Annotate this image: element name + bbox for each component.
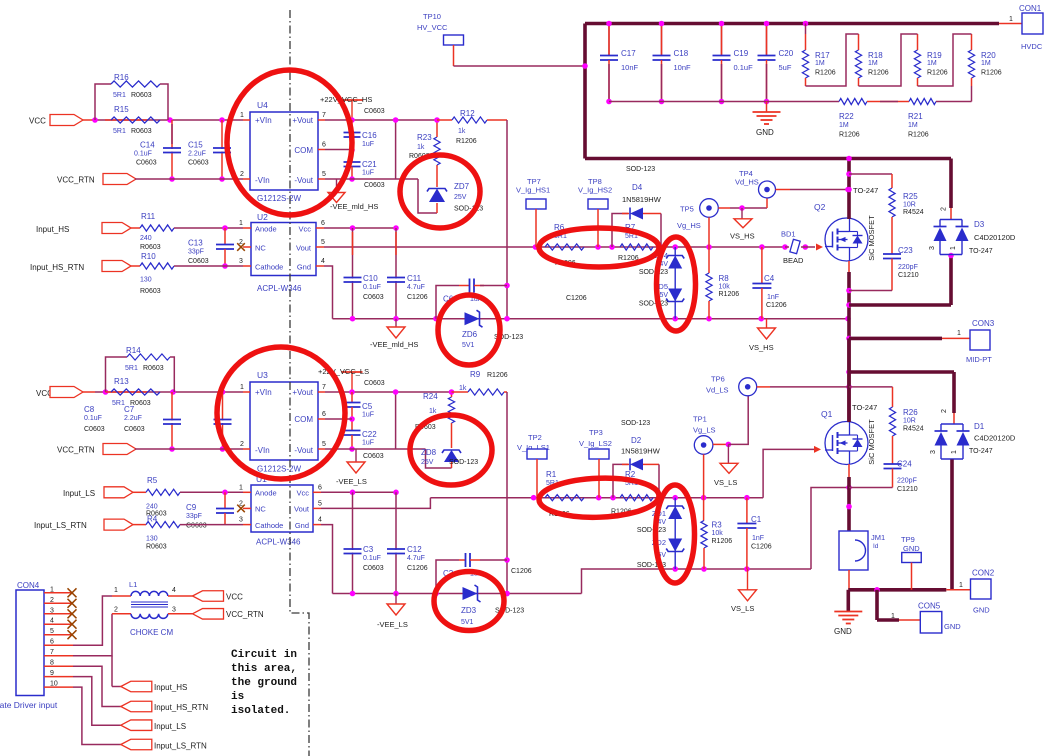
svg-text:TO-247: TO-247 xyxy=(969,448,993,455)
svg-text:D1: D1 xyxy=(974,422,985,431)
svg-text:R20: R20 xyxy=(981,51,996,60)
svg-text:R25: R25 xyxy=(903,192,918,201)
svg-text:33pF: 33pF xyxy=(188,249,204,256)
svg-text:Vg_LS: Vg_LS xyxy=(693,426,716,435)
svg-text:R1206: R1206 xyxy=(868,70,889,77)
svg-text:NC: NC xyxy=(255,505,266,514)
svg-text:9: 9 xyxy=(50,670,54,677)
svg-text:3: 3 xyxy=(929,246,936,250)
svg-text:R9: R9 xyxy=(470,370,481,379)
svg-text:-VEE_mld_HS: -VEE_mld_HS xyxy=(330,202,378,211)
svg-text:Anode: Anode xyxy=(255,225,277,234)
svg-text:5: 5 xyxy=(321,239,325,246)
svg-text:CON2: CON2 xyxy=(972,569,995,578)
svg-text:R1206: R1206 xyxy=(927,70,948,77)
svg-text:R1206: R1206 xyxy=(981,70,1002,77)
svg-text:C17: C17 xyxy=(621,49,636,58)
svg-text:C0603: C0603 xyxy=(84,426,105,433)
svg-text:C7: C7 xyxy=(124,405,135,414)
svg-text:Gate Driver input: Gate Driver input xyxy=(0,700,58,710)
svg-text:R26: R26 xyxy=(903,408,918,417)
svg-text:C0603: C0603 xyxy=(136,160,157,167)
svg-text:R1206: R1206 xyxy=(712,538,733,545)
svg-text:25V: 25V xyxy=(454,194,467,201)
svg-text:10k: 10k xyxy=(712,530,724,537)
svg-text:2: 2 xyxy=(114,607,118,614)
svg-text:0.1uF: 0.1uF xyxy=(134,151,152,158)
svg-text:R0603: R0603 xyxy=(131,128,152,135)
svg-text:C8: C8 xyxy=(84,405,95,414)
svg-text:10: 10 xyxy=(50,681,58,688)
svg-text:1uF: 1uF xyxy=(362,141,374,148)
svg-text:10nF: 10nF xyxy=(674,63,692,72)
svg-text:C23: C23 xyxy=(898,246,913,255)
svg-text:Q1: Q1 xyxy=(821,409,833,419)
svg-text:C15: C15 xyxy=(188,141,203,150)
svg-text:1M: 1M xyxy=(815,60,825,67)
svg-text:Anode: Anode xyxy=(255,489,277,498)
svg-text:MID-PT: MID-PT xyxy=(966,355,992,364)
svg-text:VCC: VCC xyxy=(226,593,243,602)
svg-text:0.1uF: 0.1uF xyxy=(734,63,754,72)
svg-text:3: 3 xyxy=(239,517,243,524)
svg-text:Input_HS_RTN: Input_HS_RTN xyxy=(30,263,84,272)
svg-text:6: 6 xyxy=(50,639,54,646)
svg-text:R13: R13 xyxy=(114,377,129,386)
svg-text:C1206: C1206 xyxy=(407,565,428,572)
svg-text:C5: C5 xyxy=(362,402,373,411)
svg-text:Vout: Vout xyxy=(296,244,312,253)
svg-text:Vout: Vout xyxy=(294,505,310,514)
svg-text:1M: 1M xyxy=(839,122,849,129)
svg-text:1nF: 1nF xyxy=(767,294,779,301)
svg-text:SiC MOSFET: SiC MOSFET xyxy=(867,419,876,465)
svg-text:R3: R3 xyxy=(712,521,723,530)
svg-text:C13: C13 xyxy=(188,239,203,248)
svg-text:C3: C3 xyxy=(363,545,374,554)
svg-text:VCC_RTN: VCC_RTN xyxy=(226,610,264,619)
svg-text:TP2: TP2 xyxy=(528,433,542,442)
svg-text:TP1: TP1 xyxy=(693,415,707,424)
svg-text:2: 2 xyxy=(240,171,244,178)
svg-text:7: 7 xyxy=(322,384,326,391)
svg-text:Cathode: Cathode xyxy=(255,263,283,272)
svg-text:+Vout: +Vout xyxy=(292,388,313,397)
svg-text:1: 1 xyxy=(240,384,244,391)
svg-text:4: 4 xyxy=(172,587,176,594)
svg-text:220pF: 220pF xyxy=(897,478,917,485)
svg-text:240: 240 xyxy=(146,504,158,511)
svg-text:VS_LS: VS_LS xyxy=(714,478,737,487)
svg-text:10nF: 10nF xyxy=(621,63,639,72)
svg-text:+VIn: +VIn xyxy=(255,116,272,125)
svg-text:R1: R1 xyxy=(546,470,557,479)
svg-text:-VEE_mld_HS: -VEE_mld_HS xyxy=(370,340,418,349)
svg-text:C14: C14 xyxy=(140,141,155,150)
svg-text:2: 2 xyxy=(50,597,54,604)
svg-text:R19: R19 xyxy=(927,51,942,60)
svg-text:1uF: 1uF xyxy=(362,170,374,177)
svg-text:Vcc: Vcc xyxy=(296,489,309,498)
svg-text:the ground: the ground xyxy=(231,677,297,689)
svg-text:C0603: C0603 xyxy=(124,426,145,433)
svg-text:TP9: TP9 xyxy=(901,535,915,544)
svg-text:5: 5 xyxy=(50,628,54,635)
svg-text:C1206: C1206 xyxy=(407,294,428,301)
svg-text:-Vout: -Vout xyxy=(294,176,313,185)
svg-text:+22V_VCC_HS: +22V_VCC_HS xyxy=(320,95,372,104)
svg-text:Vg_HS: Vg_HS xyxy=(677,221,701,230)
svg-text:CON1: CON1 xyxy=(1019,4,1042,13)
svg-text:SOD-123: SOD-123 xyxy=(626,166,655,173)
svg-text:C10: C10 xyxy=(363,274,378,283)
svg-text:5R1: 5R1 xyxy=(113,92,126,99)
svg-text:VCC_RTN: VCC_RTN xyxy=(57,176,95,185)
svg-text:SOD-123: SOD-123 xyxy=(639,301,668,308)
svg-text:5V: 5V xyxy=(659,292,668,299)
svg-text:1k: 1k xyxy=(459,385,467,392)
svg-text:1: 1 xyxy=(239,485,243,492)
svg-text:ACPL-W346: ACPL-W346 xyxy=(257,284,302,293)
svg-text:4: 4 xyxy=(50,618,54,625)
svg-text:C1206: C1206 xyxy=(566,295,587,302)
svg-text:3: 3 xyxy=(172,607,176,614)
svg-text:is: is xyxy=(231,691,244,703)
svg-text:G1212S-2W: G1212S-2W xyxy=(257,465,301,474)
svg-text:Input_HS: Input_HS xyxy=(154,683,187,692)
svg-text:+Vout: +Vout xyxy=(292,116,313,125)
svg-text:C0603: C0603 xyxy=(363,294,384,301)
svg-text:0.1uF: 0.1uF xyxy=(363,284,381,291)
svg-text:GND: GND xyxy=(903,544,920,553)
svg-text:Id: Id xyxy=(873,543,879,550)
svg-text:TP10: TP10 xyxy=(423,12,441,21)
svg-text:R4524: R4524 xyxy=(903,209,924,216)
svg-text:D2: D2 xyxy=(631,436,642,445)
svg-text:C20: C20 xyxy=(779,49,794,58)
svg-text:SOD-123: SOD-123 xyxy=(449,459,478,466)
svg-text:ZD7: ZD7 xyxy=(454,182,470,191)
svg-text:V_Ig_HS2: V_Ig_HS2 xyxy=(578,186,612,195)
svg-text:R21: R21 xyxy=(908,112,923,121)
svg-text:33pF: 33pF xyxy=(186,513,202,520)
svg-text:C0603: C0603 xyxy=(188,160,209,167)
svg-text:10R: 10R xyxy=(903,418,916,425)
svg-text:1uF: 1uF xyxy=(362,412,374,419)
svg-text:R1206: R1206 xyxy=(719,291,740,298)
svg-text:V_Ig_LS2: V_Ig_LS2 xyxy=(579,439,612,448)
svg-text:4.7uF: 4.7uF xyxy=(407,555,425,562)
svg-text:Vcc: Vcc xyxy=(298,225,311,234)
svg-text:U3: U3 xyxy=(257,370,268,380)
svg-text:R16: R16 xyxy=(114,73,129,82)
svg-text:1: 1 xyxy=(240,112,244,119)
svg-text:5R1: 5R1 xyxy=(112,400,125,407)
svg-text:C9: C9 xyxy=(186,503,197,512)
svg-text:C1206: C1206 xyxy=(751,544,772,551)
svg-text:6: 6 xyxy=(322,411,326,418)
svg-text:R0603: R0603 xyxy=(140,244,161,251)
svg-text:C11: C11 xyxy=(407,274,422,283)
svg-text:C0603: C0603 xyxy=(364,380,385,387)
svg-text:HV_VCC: HV_VCC xyxy=(417,23,448,32)
svg-text:C0603: C0603 xyxy=(363,565,384,572)
svg-text:-VIn: -VIn xyxy=(255,176,270,185)
svg-text:isolated.: isolated. xyxy=(231,705,290,717)
svg-text:COM: COM xyxy=(294,415,313,424)
svg-text:R14: R14 xyxy=(126,346,141,355)
svg-text:SOD-123: SOD-123 xyxy=(621,420,650,427)
svg-text:C16: C16 xyxy=(362,131,377,140)
svg-text:2: 2 xyxy=(941,207,948,211)
svg-text:R4524: R4524 xyxy=(903,426,924,433)
svg-text:1k: 1k xyxy=(417,144,425,151)
svg-text:R4: R4 xyxy=(147,515,158,524)
svg-text:GND: GND xyxy=(756,128,774,137)
svg-text:25V: 25V xyxy=(421,459,434,466)
svg-text:5R1: 5R1 xyxy=(113,128,126,135)
svg-text:6: 6 xyxy=(322,142,326,149)
svg-text:VCC_RTN: VCC_RTN xyxy=(57,446,95,455)
svg-text:3: 3 xyxy=(239,258,243,265)
svg-text:5V1: 5V1 xyxy=(461,619,474,626)
svg-text:1nF: 1nF xyxy=(752,535,764,542)
svg-text:C22: C22 xyxy=(362,430,377,439)
svg-text:Cathode: Cathode xyxy=(255,521,283,530)
svg-text:1: 1 xyxy=(950,246,957,250)
svg-text:C21: C21 xyxy=(362,160,377,169)
svg-text:ZD6: ZD6 xyxy=(462,330,478,339)
svg-text:6: 6 xyxy=(321,220,325,227)
svg-text:U4: U4 xyxy=(257,100,268,110)
svg-text:C1: C1 xyxy=(751,515,762,524)
svg-text:R15: R15 xyxy=(114,105,129,114)
svg-text:ACPL-W346: ACPL-W346 xyxy=(256,538,301,547)
svg-text:0.1uF: 0.1uF xyxy=(84,415,102,422)
svg-text:4: 4 xyxy=(318,517,322,524)
svg-text:SiC MOSFET: SiC MOSFET xyxy=(867,215,876,261)
svg-text:1: 1 xyxy=(114,587,118,594)
svg-text:Circuit in: Circuit in xyxy=(231,649,297,661)
svg-text:5: 5 xyxy=(322,441,326,448)
svg-text:C1210: C1210 xyxy=(898,272,919,279)
svg-text:R0603: R0603 xyxy=(146,544,167,551)
svg-text:CON4: CON4 xyxy=(17,581,40,590)
svg-text:VS_HS: VS_HS xyxy=(730,232,755,241)
svg-text:D4: D4 xyxy=(632,183,643,192)
svg-text:TP3: TP3 xyxy=(589,428,603,437)
svg-text:C24: C24 xyxy=(897,460,912,469)
svg-text:R10: R10 xyxy=(141,252,156,261)
svg-text:C0603: C0603 xyxy=(188,258,209,265)
svg-text:C0603: C0603 xyxy=(364,108,385,115)
svg-text:10R: 10R xyxy=(903,202,916,209)
svg-text:R0603: R0603 xyxy=(140,288,161,295)
svg-text:1M: 1M xyxy=(927,60,937,67)
svg-text:L1: L1 xyxy=(129,580,137,589)
svg-text:8: 8 xyxy=(50,660,54,667)
svg-text:R0603: R0603 xyxy=(143,365,164,372)
svg-text:C0603: C0603 xyxy=(186,523,207,530)
svg-text:D3: D3 xyxy=(974,220,985,229)
svg-text:5: 5 xyxy=(318,501,322,508)
svg-text:Input_HS: Input_HS xyxy=(36,225,69,234)
svg-text:G1212S-2W: G1212S-2W xyxy=(257,194,301,203)
svg-text:5: 5 xyxy=(322,171,326,178)
svg-text:C18: C18 xyxy=(674,49,689,58)
svg-text:1: 1 xyxy=(1009,16,1013,23)
svg-text:1: 1 xyxy=(951,450,958,454)
svg-text:1k: 1k xyxy=(458,128,466,135)
svg-text:TO-247: TO-247 xyxy=(969,248,993,255)
svg-text:1M: 1M xyxy=(981,60,991,67)
svg-text:C0603: C0603 xyxy=(363,453,384,460)
svg-text:-VEE_LS: -VEE_LS xyxy=(336,477,367,486)
svg-text:CON5: CON5 xyxy=(918,602,941,611)
svg-text:5R1: 5R1 xyxy=(125,365,138,372)
svg-text:Input_LS_RTN: Input_LS_RTN xyxy=(154,742,207,751)
svg-text:R5: R5 xyxy=(147,476,158,485)
svg-text:6: 6 xyxy=(318,485,322,492)
svg-text:TO-247: TO-247 xyxy=(853,186,878,195)
svg-text:C1206: C1206 xyxy=(766,302,787,309)
svg-text:R1206: R1206 xyxy=(839,132,860,139)
svg-text:C4D20120D: C4D20120D xyxy=(974,434,1016,443)
svg-text:C0603: C0603 xyxy=(364,182,385,189)
svg-text:7: 7 xyxy=(322,112,326,119)
svg-text:U2: U2 xyxy=(257,212,268,222)
svg-text:R23: R23 xyxy=(417,133,432,142)
svg-text:VCC: VCC xyxy=(29,117,46,126)
svg-text:R17: R17 xyxy=(815,51,830,60)
svg-text:1M: 1M xyxy=(868,60,878,67)
svg-text:C19: C19 xyxy=(734,49,749,58)
svg-text:Input_LS: Input_LS xyxy=(63,489,95,498)
svg-text:VS_HS: VS_HS xyxy=(749,343,774,352)
svg-text:R0603: R0603 xyxy=(131,92,152,99)
svg-text:GND: GND xyxy=(973,606,990,615)
svg-text:CHOKE CM: CHOKE CM xyxy=(130,628,173,637)
svg-text:TP6: TP6 xyxy=(711,375,725,384)
svg-text:SOD-123: SOD-123 xyxy=(639,269,668,276)
svg-text:R11: R11 xyxy=(141,212,156,221)
svg-text:Input_HS_RTN: Input_HS_RTN xyxy=(154,703,208,712)
svg-text:7: 7 xyxy=(50,649,54,656)
svg-text:R8: R8 xyxy=(719,274,730,283)
svg-text:1k: 1k xyxy=(429,408,437,415)
svg-text:Vd_HS: Vd_HS xyxy=(735,178,759,187)
svg-text:2.2uF: 2.2uF xyxy=(188,151,206,158)
svg-text:130: 130 xyxy=(146,536,158,543)
svg-text:4.7uF: 4.7uF xyxy=(407,284,425,291)
svg-text:SOD-123: SOD-123 xyxy=(637,527,666,534)
svg-text:Input_LS_RTN: Input_LS_RTN xyxy=(34,521,87,530)
svg-text:GND: GND xyxy=(834,627,852,636)
svg-text:3: 3 xyxy=(50,607,54,614)
svg-text:NC: NC xyxy=(255,244,266,253)
svg-text:5uF: 5uF xyxy=(779,63,792,72)
svg-text:Gnd: Gnd xyxy=(295,521,309,530)
svg-text:R1206: R1206 xyxy=(815,70,836,77)
svg-text:5V1: 5V1 xyxy=(462,342,475,349)
svg-text:2: 2 xyxy=(941,409,948,413)
svg-text:Gnd: Gnd xyxy=(297,263,311,272)
svg-text:R24: R24 xyxy=(423,392,438,401)
svg-text:Q2: Q2 xyxy=(814,202,826,212)
svg-text:220pF: 220pF xyxy=(898,264,918,271)
svg-text:C1206: C1206 xyxy=(511,568,532,575)
svg-text:2.2uF: 2.2uF xyxy=(124,415,142,422)
svg-text:0.1uF: 0.1uF xyxy=(363,555,381,562)
svg-text:R1206: R1206 xyxy=(908,132,929,139)
svg-text:BEAD: BEAD xyxy=(783,256,804,265)
svg-text:this area,: this area, xyxy=(231,663,297,675)
svg-text:+VIn: +VIn xyxy=(255,388,272,397)
svg-text:CON3: CON3 xyxy=(972,319,995,328)
svg-text:1: 1 xyxy=(959,582,963,589)
svg-text:1uF: 1uF xyxy=(362,440,374,447)
svg-text:1N5819HW: 1N5819HW xyxy=(622,195,662,204)
svg-text:JM1: JM1 xyxy=(871,533,885,542)
svg-text:ZD8: ZD8 xyxy=(421,448,437,457)
svg-text:1: 1 xyxy=(50,586,54,593)
svg-text:COM: COM xyxy=(294,146,313,155)
svg-text:GND: GND xyxy=(944,622,961,631)
svg-text:240: 240 xyxy=(140,235,152,242)
svg-text:1N5819HW: 1N5819HW xyxy=(621,447,661,456)
svg-text:TP5: TP5 xyxy=(680,205,694,214)
svg-text:VS_LS: VS_LS xyxy=(731,604,754,613)
svg-text:-VEE_LS: -VEE_LS xyxy=(377,620,408,629)
svg-text:3: 3 xyxy=(930,450,937,454)
svg-text:1M: 1M xyxy=(908,122,918,129)
svg-text:-VIn: -VIn xyxy=(255,446,270,455)
svg-text:4: 4 xyxy=(321,258,325,265)
svg-text:C4: C4 xyxy=(764,274,775,283)
svg-text:Input_LS: Input_LS xyxy=(154,722,186,731)
svg-text:Vd_LS: Vd_LS xyxy=(706,386,729,395)
svg-text:ZD3: ZD3 xyxy=(461,606,477,615)
svg-text:BD1: BD1 xyxy=(781,230,796,239)
svg-text:R1206: R1206 xyxy=(487,372,508,379)
svg-text:R18: R18 xyxy=(868,51,883,60)
svg-text:1: 1 xyxy=(891,613,895,620)
svg-text:2: 2 xyxy=(240,441,244,448)
svg-text:1: 1 xyxy=(957,330,961,337)
svg-text:R12: R12 xyxy=(460,109,475,118)
svg-text:R22: R22 xyxy=(839,112,854,121)
svg-text:10k: 10k xyxy=(719,284,731,291)
svg-text:HVDC: HVDC xyxy=(1021,42,1043,51)
svg-text:TO-247: TO-247 xyxy=(852,403,877,412)
svg-text:-Vout: -Vout xyxy=(294,446,313,455)
svg-text:C4D20120D: C4D20120D xyxy=(974,233,1016,242)
svg-text:130: 130 xyxy=(140,277,152,284)
svg-text:R1206: R1206 xyxy=(456,138,477,145)
svg-text:C1210: C1210 xyxy=(897,486,918,493)
svg-text:C12: C12 xyxy=(407,545,422,554)
svg-text:1: 1 xyxy=(239,220,243,227)
svg-text:V_Ig_HS1: V_Ig_HS1 xyxy=(516,186,550,195)
